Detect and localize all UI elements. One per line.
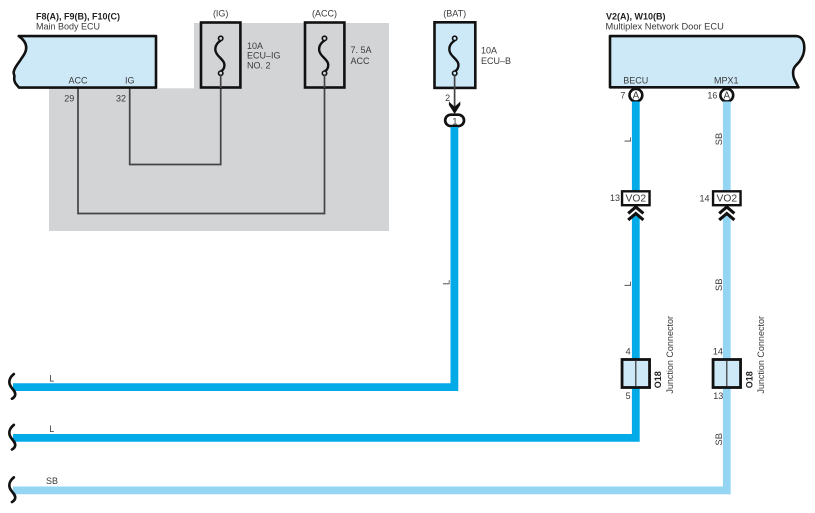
svg-text:L: L <box>49 373 54 383</box>
svg-text:O18: O18 <box>653 371 663 388</box>
svg-text:10A: 10A <box>481 46 497 56</box>
svg-text:(IG): (IG) <box>213 9 229 19</box>
svg-text:4: 4 <box>626 347 631 357</box>
svg-text:SB: SB <box>714 279 724 291</box>
svg-text:ACC: ACC <box>351 56 371 66</box>
svg-text:A: A <box>724 91 731 102</box>
svg-text:SB: SB <box>714 133 724 145</box>
svg-text:SB: SB <box>714 433 724 445</box>
svg-text:O18: O18 <box>744 371 754 388</box>
svg-text:13: 13 <box>610 193 620 203</box>
svg-text:7: 7 <box>620 90 625 100</box>
svg-text:10A: 10A <box>247 41 263 51</box>
svg-text:16: 16 <box>707 90 717 100</box>
svg-text:VO2: VO2 <box>625 193 646 204</box>
svg-text:SB: SB <box>46 476 58 486</box>
svg-text:ECU–B: ECU–B <box>481 56 511 66</box>
svg-text:2: 2 <box>445 93 450 103</box>
svg-text:BECU: BECU <box>623 75 648 85</box>
svg-text:F8(A), F9(B), F10(C): F8(A), F9(B), F10(C) <box>36 12 120 22</box>
svg-text:ECU–IG: ECU–IG <box>247 51 281 61</box>
svg-text:(BAT): (BAT) <box>443 9 466 19</box>
svg-text:1: 1 <box>452 116 457 127</box>
svg-text:Junction Connector: Junction Connector <box>756 316 766 394</box>
svg-text:29: 29 <box>64 94 74 104</box>
svg-text:NO. 2: NO. 2 <box>247 60 271 70</box>
svg-text:L: L <box>441 280 451 285</box>
svg-text:Main Body ECU: Main Body ECU <box>36 22 100 32</box>
svg-text:13: 13 <box>713 391 723 401</box>
svg-text:Junction Connector: Junction Connector <box>665 316 675 394</box>
svg-text:L: L <box>623 281 633 286</box>
svg-text:L: L <box>623 137 633 142</box>
svg-text:ACC: ACC <box>68 75 88 85</box>
svg-text:5: 5 <box>626 391 631 401</box>
svg-text:IG: IG <box>125 75 135 85</box>
svg-text:(ACC): (ACC) <box>312 9 337 19</box>
svg-text:V2(A), W10(B): V2(A), W10(B) <box>606 12 666 22</box>
svg-text:Multiplex Network Door ECU: Multiplex Network Door ECU <box>606 22 724 32</box>
svg-text:32: 32 <box>116 94 126 104</box>
svg-text:14: 14 <box>699 193 709 203</box>
svg-text:MPX1: MPX1 <box>714 75 739 85</box>
svg-text:VO2: VO2 <box>716 193 737 204</box>
svg-text:L: L <box>49 424 54 434</box>
svg-text:14: 14 <box>713 347 723 357</box>
svg-text:A: A <box>633 91 640 102</box>
svg-text:7. 5A: 7. 5A <box>351 45 372 55</box>
